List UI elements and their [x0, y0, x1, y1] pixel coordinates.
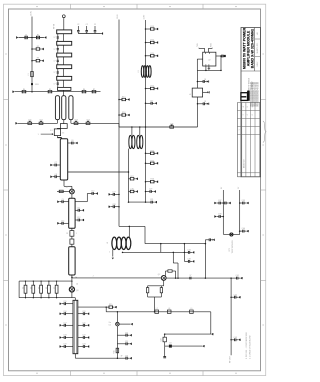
svg-text:17: 17 [54, 72, 56, 74]
junction RF2 [230, 296, 232, 298]
resistor R17 with terminal [119, 99, 122, 101]
svg-text:R27: R27 [130, 176, 133, 178]
wire J2 right [119, 323, 130, 325]
stripline TL2 [69, 198, 75, 228]
wire L6 entry [128, 236, 129, 238]
svg-text:F.a: F.a [109, 322, 111, 324]
wire L6 exit ground arrow [112, 249, 114, 256]
wire D3 stub [172, 345, 202, 347]
terminal D3 stub [201, 345, 203, 347]
resistor R24 with terminal [146, 152, 151, 154]
wire rail left [18, 122, 58, 124]
wire route A step [119, 225, 145, 227]
svg-text:C27: C27 [112, 192, 115, 194]
capacitor C39 with terminal [240, 202, 243, 204]
resistor R25 with terminal [146, 162, 151, 164]
wire resistor row left leg [18, 281, 20, 298]
svg-text:b.1: b.1 [109, 325, 111, 327]
revision table grid [237, 102, 260, 104]
resistor R28 feedback [175, 271, 177, 278]
resistor R16 series [116, 348, 119, 353]
capacitor C34 with terminal [184, 251, 188, 253]
svg-text:C39: C39 [242, 200, 245, 202]
capacitor C18 with terminal [66, 337, 74, 339]
wire U3 down to rail [197, 97, 199, 127]
capacitor C23 with terminal [78, 346, 84, 348]
resistor R5 [48, 91, 52, 93]
svg-text:C22: C22 [82, 335, 85, 337]
svg-text:2. C GRADE OR EQUIVALENT: 2. C GRADE OR EQUIVALENT [248, 335, 251, 359]
svg-text:L8: L8 [168, 308, 170, 310]
svg-text:B: B [247, 106, 249, 107]
stripline TL4 output line [73, 300, 78, 353]
svg-text:C15: C15 [63, 301, 66, 303]
wire drop from route2 [183, 244, 185, 253]
junction on V1 row2 [31, 48, 33, 50]
svg-text:C41: C41 [236, 275, 239, 277]
inductor L9 series [190, 310, 194, 313]
svg-text:CV2: CV2 [39, 120, 43, 122]
resistor R15 with terminal [106, 306, 109, 308]
svg-text:13.8V: 13.8V [30, 10, 32, 16]
svg-text:C34: C34 [187, 250, 190, 252]
wire Q2 collector drop [172, 252, 174, 263]
junction P2 [223, 216, 225, 218]
wire RF out vertical [230, 278, 232, 355]
fold mark bracket [263, 121, 266, 143]
svg-text:C40: C40 [242, 228, 245, 230]
transistor Q3 power device [71, 281, 73, 287]
svg-text:C17: C17 [63, 322, 66, 324]
border zone dividers and zone labels [70, 4, 72, 9]
terminal bias bus left [14, 91, 16, 93]
inductor L7 series [155, 310, 159, 313]
svg-text:R25: R25 [151, 160, 154, 162]
svg-text:CV1: CV1 [28, 120, 32, 122]
trimmer capacitor CV2 [39, 122, 43, 124]
svg-text:R22: R22 [151, 86, 154, 88]
capacitor stubs C2 C3 C4 [77, 26, 79, 31]
svg-text:C49: C49 [160, 338, 162, 341]
wire Q1 to TL2 [71, 194, 73, 199]
wire rail right [119, 126, 198, 128]
wire coils common [129, 148, 142, 150]
svg-text:R19: R19 [151, 26, 154, 28]
wire sense tap drop [105, 307, 107, 312]
sheet outer border [4, 4, 266, 375]
capacitor C28 with terminal [115, 206, 120, 208]
svg-text:Q2: Q2 [158, 274, 160, 276]
svg-text:18: 18 [204, 79, 206, 81]
svg-text:U2: U2 [208, 60, 210, 62]
svg-text:1: 1 [38, 134, 39, 136]
wire V1 supply rail [31, 17, 33, 92]
svg-text:C18: C18 [63, 335, 66, 337]
svg-text:BAND X-W 320-400MHz: BAND X-W 320-400MHz [250, 29, 254, 69]
capacitor C37 with terminal [220, 202, 223, 204]
wire shunt leg end [164, 346, 166, 356]
resistor R27 with terminal [129, 178, 131, 180]
svg-text:C28: C28 [112, 204, 115, 206]
junction B3 [145, 55, 147, 57]
svg-text:CV4: CV4 [86, 120, 90, 122]
wire lowpass bottom rail [165, 333, 211, 335]
capacitor C27 with terminal [115, 193, 120, 195]
inductor L6 interstage [112, 237, 117, 249]
svg-text:C12: C12 [77, 217, 80, 219]
svg-text:CV5: CV5 [170, 123, 174, 125]
junction U3 stub [197, 103, 199, 105]
junction coils to TL1 rail [128, 171, 130, 173]
svg-text:R15: R15 [109, 304, 112, 306]
svg-text:C38: C38 [218, 214, 221, 216]
capacitor C22 with terminal [78, 337, 84, 339]
wire rails connector [170, 312, 172, 334]
svg-text:C7: C7 [55, 162, 57, 164]
capacitor C12 with terminal [75, 219, 78, 221]
junction A2 [118, 114, 120, 116]
wire TL2 right riser [75, 201, 87, 203]
svg-text:R17: R17 [122, 97, 125, 99]
svg-text:L3: L3 [138, 71, 140, 73]
svg-text:RF OUT: RF OUT [229, 355, 231, 363]
wire Q3 to TL4 [71, 292, 73, 298]
terminal right of R1 [43, 37, 45, 39]
svg-text:18: 18 [204, 101, 206, 103]
wire TL1 to Q1 [63, 180, 65, 186]
wire L2 to TL3 [71, 244, 73, 247]
svg-text:J3: J3 [31, 287, 33, 289]
capacitor C25 with terminal [117, 343, 126, 345]
junction RF1 [230, 277, 232, 279]
transistor Q2 [161, 276, 166, 281]
company logo [241, 93, 248, 101]
capacitor C41 with terminal [231, 277, 237, 279]
connector J1 input pin [62, 15, 65, 18]
svg-text:C10: C10 [91, 191, 94, 193]
capacitor C14 series [71, 228, 73, 230]
junction B6 [145, 153, 147, 155]
junction node TL3 out [71, 275, 73, 281]
capacitor C47 with terminal [146, 102, 152, 104]
capacitor C42 with terminal [231, 296, 235, 298]
inductor L2 series [71, 236, 73, 239]
inductor L4 [129, 135, 132, 148]
svg-text:1d: 1d [76, 284, 78, 286]
svg-text:Q3: Q3 [76, 290, 78, 292]
wire detector chain [116, 326, 118, 358]
capacitor C9 with terminal [63, 201, 68, 203]
terminal left of C1 [17, 37, 19, 39]
resistor R19 with terminal [146, 28, 151, 30]
capacitor C13 with terminal [63, 222, 68, 224]
svg-text:R6: R6 [83, 89, 85, 91]
diode D3 detector [169, 345, 172, 348]
svg-text:J: J [93, 276, 94, 278]
svg-text:J3: J3 [23, 287, 25, 289]
svg-text:C37: C37 [218, 200, 221, 202]
wire P [222, 190, 224, 234]
wire stub row1 [19, 37, 44, 39]
svg-text:L6: L6 [107, 242, 109, 244]
junction A4 [118, 194, 120, 196]
junction Q1n [239, 202, 241, 204]
svg-text:1: 1 [109, 252, 110, 254]
wire U2 loop [197, 58, 202, 60]
capacitor C20 with terminal [78, 313, 84, 315]
svg-text:C42: C42 [234, 294, 237, 296]
svg-text:17: 17 [54, 49, 56, 51]
stripline TL1 [60, 139, 67, 180]
junction B rail [145, 126, 147, 128]
capacitor C6 with terminal [68, 142, 72, 144]
svg-text:C48: C48 [187, 259, 190, 261]
svg-text:C16: C16 [63, 311, 66, 313]
resistor R18 with terminal [119, 114, 122, 116]
svg-text:R21: R21 [151, 53, 154, 55]
svg-text:C11: C11 [77, 207, 80, 209]
wire B supply [145, 20, 147, 202]
svg-text:D3: D3 [169, 342, 171, 344]
svg-text:C2: C2 [94, 24, 96, 26]
terminal J2 stub [129, 323, 131, 325]
trimmer capacitor CV3 [74, 122, 78, 124]
capacitor C45 with terminal [197, 81, 203, 83]
junction B4 [145, 88, 147, 90]
svg-text:C19: C19 [63, 344, 66, 346]
resistor R4 [22, 91, 26, 93]
capacitor C46 with terminal [198, 103, 204, 105]
svg-text:3.3: 3.3 [62, 132, 64, 134]
svg-text:RF IN: RF IN [54, 23, 56, 29]
wire PQ join [223, 233, 240, 235]
capacitor C10 with terminal [90, 193, 93, 195]
module U3 driver bias [192, 88, 202, 97]
wire U2 bottom pins [205, 66, 207, 70]
svg-text:C13: C13 [61, 220, 64, 222]
resistor bank R9-R13 [25, 281, 27, 285]
wire Q net [239, 190, 241, 234]
svg-text:L9: L9 [190, 308, 192, 310]
wire C5 to TL1 [56, 136, 58, 138]
wire J2 up [116, 312, 118, 323]
svg-text:C47: C47 [150, 100, 153, 102]
resistor R30 [160, 286, 162, 288]
wire divider right leg [204, 244, 206, 279]
svg-text:1: 1 [76, 233, 77, 235]
wire TL4 to output bus [74, 354, 76, 359]
wire shunt corner [164, 342, 166, 346]
transistor Q1 [70, 189, 75, 194]
wire base feed to Q2 stage [72, 277, 161, 279]
svg-text:J3: J3 [38, 287, 40, 289]
svg-text:13.8V: 13.8V [143, 14, 145, 19]
wire resistor row bottom rail [19, 297, 72, 299]
svg-text:R16: R16 [114, 350, 116, 353]
svg-text:RT1: RT1 [229, 248, 231, 251]
svg-text:Q1: Q1 [66, 187, 68, 189]
wire divider top stub [204, 240, 206, 244]
wire TL4 sense tap [78, 306, 106, 308]
svg-text:R20: R20 [151, 40, 154, 42]
resistor R3 with terminal [32, 60, 36, 62]
svg-text:1. REF DES ... COMPONENT SIDE: 1. REF DES ... COMPONENT SIDE [246, 331, 248, 359]
module U2 bias switch [203, 52, 216, 66]
svg-text:C2: C2 [77, 24, 79, 26]
wire coil feed drop [128, 226, 130, 237]
svg-text:R5: R5 [49, 89, 51, 91]
resistor R2 with terminal [32, 48, 36, 50]
wire resistor row top rail [19, 280, 72, 282]
junction A1 [118, 99, 120, 101]
wire drop from route1 [160, 244, 162, 253]
svg-text:J3: J3 [46, 287, 48, 289]
title block sheet cells [255, 38, 261, 40]
sheet inner border [9, 9, 261, 371]
junction B8 [145, 181, 147, 183]
svg-text:17: 17 [54, 83, 56, 85]
junction B1 [145, 28, 147, 30]
terminal rail left [17, 122, 19, 124]
capacitor C26 with terminal [117, 357, 126, 359]
svg-text:13.8V: 13.8V [117, 14, 119, 19]
coupled line filter U1 [55, 96, 59, 120]
svg-text:R3: R3 [37, 58, 39, 60]
capacitor C49 series [163, 337, 166, 342]
capacitor C7 with terminal [56, 164, 60, 166]
wire rail jog [118, 123, 120, 127]
resistor R8 base bias [57, 191, 70, 193]
wire U2 to U3 [196, 70, 198, 88]
junction B9 [145, 191, 147, 193]
wire U3 right stub [203, 91, 208, 93]
wire W2 [211, 47, 213, 50]
svg-text:R7: R7 [93, 89, 95, 91]
trimmer capacitor CV4 [86, 122, 90, 124]
capacitor C21 with terminal [78, 324, 84, 326]
junction B2 [145, 42, 147, 44]
wire feed rail [106, 311, 211, 313]
resistor R20 with terminal [146, 42, 151, 44]
svg-text:R26: R26 [151, 179, 154, 181]
inductor L5 [137, 135, 140, 148]
junction A5 [118, 206, 120, 208]
svg-text:C2: C2 [86, 24, 88, 26]
svg-text:1F: 1F [66, 233, 68, 235]
svg-text:C30: C30 [130, 189, 133, 191]
resistor R26 with terminal [146, 181, 151, 183]
terminal cap stub bus [100, 33, 102, 35]
title block outline [241, 28, 261, 177]
wire emitter bottom rail [148, 296, 162, 298]
capacitor C17 with terminal [66, 324, 74, 326]
svg-text:R1: R1 [37, 35, 39, 37]
wire W1 [198, 47, 200, 50]
capacitor C24 with terminal [117, 334, 126, 336]
wire Q2 collector line [166, 277, 231, 279]
capacitor C38 with terminal [220, 216, 223, 218]
wire TL1 output stub [68, 171, 129, 173]
annotation arrow RF drive [41, 133, 53, 135]
inductor L1 series on V1 [31, 72, 34, 77]
junction RF3 [230, 339, 232, 341]
capacitor C15 with terminal [66, 303, 74, 305]
capacitor C1 [25, 36, 27, 39]
wire rail mid [71, 122, 119, 124]
wire feed corner down [210, 312, 212, 334]
svg-text:C29: C29 [149, 189, 152, 191]
wire collector rail [123, 251, 185, 253]
connector J2 sense [116, 322, 120, 326]
capacitor C43 with terminal [231, 339, 235, 341]
wire emitter rail [148, 285, 164, 287]
capacitor C50 with terminal [223, 202, 225, 204]
junction on V1 row1 [31, 37, 33, 39]
svg-text:J3: J3 [54, 287, 56, 289]
svg-text:C26: C26 [125, 355, 128, 357]
svg-text:R24: R24 [151, 150, 154, 152]
capacitor C30 with terminal [129, 191, 131, 193]
stripline ladder Z1-Z6 [57, 30, 72, 34]
capacitor C19 with terminal [66, 346, 74, 348]
trimmer capacitor CV5 [170, 126, 174, 128]
svg-text:C24: C24 [125, 332, 128, 334]
stripline TL3 [69, 247, 75, 275]
capacitor C5 series input [63, 120, 65, 124]
wire Q2 emitter [163, 280, 165, 286]
svg-text:TEMP SENSOR: TEMP SENSOR [232, 240, 234, 254]
svg-text:W6D01 SCH: W6D01 SCH [243, 159, 245, 168]
svg-text:17: 17 [54, 61, 56, 63]
resistor R1 [37, 36, 40, 39]
wire coil taps [131, 127, 133, 135]
svg-text:L7: L7 [156, 308, 158, 310]
junction B5 [145, 103, 147, 105]
svg-text:R4: R4 [23, 89, 25, 91]
svg-text:C8: C8 [55, 174, 57, 176]
terminal lowpass out [210, 333, 212, 335]
svg-text:17: 17 [54, 37, 56, 39]
svg-text:C23: C23 [82, 344, 85, 346]
trimmer capacitor CV1 [28, 122, 32, 124]
wire B termination rail [129, 201, 146, 203]
junction B7 [145, 163, 147, 165]
capacitor C11 with terminal [75, 209, 78, 211]
junction Q2n [239, 230, 241, 232]
svg-text:C25: C25 [125, 341, 128, 343]
capacitor C33 with terminal [205, 239, 209, 241]
ferrite bead FB1 on V1 [31, 83, 33, 85]
svg-text:C20: C20 [82, 311, 85, 313]
svg-text:C1: C1 [25, 35, 27, 37]
resistor R7 [92, 91, 96, 93]
thermistor RT1 [230, 233, 233, 236]
svg-text:C31: C31 [150, 199, 153, 201]
capacitor C8 with terminal [56, 176, 60, 178]
junction on V1 row3 [31, 60, 33, 62]
svg-text:C43: C43 [234, 337, 237, 339]
wire bias bus [15, 91, 101, 93]
svg-text:REV 2: REV 2 [257, 62, 259, 67]
svg-text:R2: R2 [37, 46, 39, 48]
junction V1 to bias bus [31, 91, 33, 93]
capacitor C48 with terminal [184, 260, 188, 262]
capacitor C31 with terminal [146, 201, 152, 203]
svg-text:3.3: 3.3 [50, 130, 52, 132]
resistor R6 [82, 91, 86, 93]
svg-text:C21: C21 [82, 322, 85, 324]
junction P1 [223, 202, 225, 204]
